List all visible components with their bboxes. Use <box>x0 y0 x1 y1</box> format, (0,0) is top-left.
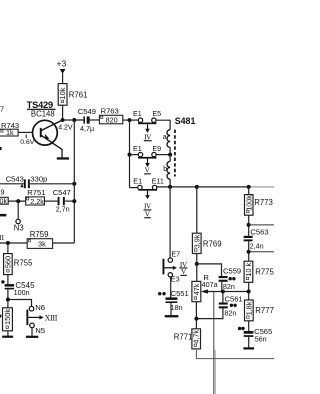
wire E5 to coil a <box>156 120 170 130</box>
svg-text:7: 7 <box>0 104 4 113</box>
wire R759 row <box>0 242 27 244</box>
capacitor C559 82n <box>219 267 242 291</box>
svg-text:3k: 3k <box>38 239 46 248</box>
svg-text:3,9k: 3,9k <box>192 234 201 248</box>
resistor R777 1,8k <box>244 300 274 321</box>
wire E3 to C551 <box>170 277 172 298</box>
resistor R773 100k <box>244 195 273 216</box>
junction N6 tap <box>6 298 10 302</box>
junction stub2 <box>247 250 251 254</box>
junction C559 tap <box>195 262 199 266</box>
svg-text:4.2V: 4.2V <box>58 124 73 131</box>
junction stub1 <box>247 223 251 227</box>
svg-text:E1: E1 <box>133 144 142 153</box>
svg-text:R773: R773 <box>254 198 273 207</box>
wire C545 down <box>7 289 9 307</box>
terminal N3 <box>14 219 24 232</box>
svg-text:82n: 82n <box>223 282 235 291</box>
wire continuation right (thin) <box>249 186 274 188</box>
svg-text:C563: C563 <box>250 228 268 237</box>
wire R773 lead <box>248 187 250 195</box>
ground C565 <box>243 347 254 349</box>
svg-text:150k: 150k <box>3 309 12 325</box>
junction row2 left <box>128 153 132 157</box>
svg-text:407a: 407a <box>202 280 218 289</box>
capacitor plate (cut) at left edge <box>0 214 6 217</box>
wire N3 drop <box>17 201 19 219</box>
edge tick left <box>0 315 1 318</box>
svg-text:TS429: TS429 <box>27 100 53 110</box>
wire R775 to R777 <box>248 282 250 300</box>
wire C563 to R775 <box>248 241 250 261</box>
svg-text:XII: XII <box>0 233 5 242</box>
junction coil tap <box>168 153 172 157</box>
svg-text:E9: E9 <box>152 144 161 153</box>
wire R755 to C545 <box>7 275 9 285</box>
coil a <box>163 130 170 148</box>
resistor R769 3,9k <box>192 233 221 253</box>
wire E7 column <box>169 187 171 258</box>
wire branch down to edge <box>213 292 215 394</box>
junction C543 row <box>72 182 76 186</box>
svg-text:2,2k: 2,2k <box>30 197 44 206</box>
wire C551 to ground <box>170 303 172 315</box>
label 0.6V with tick <box>20 134 34 146</box>
wire 150k to ground <box>7 331 9 336</box>
svg-text:E1: E1 <box>133 109 142 118</box>
junction coil b bottom <box>168 185 172 189</box>
svg-text:820: 820 <box>106 115 118 124</box>
wire R763 to E1 <box>123 119 139 121</box>
wire base <box>18 131 33 133</box>
svg-text:.9: .9 <box>0 187 5 196</box>
switch S481 section IV/V : terminals E1 E11 <box>133 176 164 218</box>
resistor R775 10k <box>244 261 275 282</box>
svg-text:1k: 1k <box>6 128 14 137</box>
capacitor C563 2,4n <box>244 228 269 251</box>
capacitor C543 330p <box>6 174 48 188</box>
wire row2 left <box>130 154 139 156</box>
svg-text:+3: +3 <box>57 59 67 69</box>
capacitor C549 4,7µ <box>78 107 96 133</box>
wire left switch rail <box>129 120 131 188</box>
svg-text:560: 560 <box>3 256 12 268</box>
resistor R759 3k <box>27 230 52 248</box>
svg-text:R775: R775 <box>255 267 274 276</box>
svg-text:BC148: BC148 <box>31 109 55 118</box>
wire C549 to R763 <box>90 119 100 121</box>
wire stub right 1 <box>249 224 274 226</box>
svg-text:18n: 18n <box>171 303 183 312</box>
ground 150k <box>2 336 13 338</box>
capacitor C561 82n <box>219 292 243 318</box>
junction left switch rail top <box>128 118 132 122</box>
capacitor C551 18n <box>158 289 189 312</box>
svg-text:S481: S481 <box>175 116 196 126</box>
junction R771 top <box>194 317 198 321</box>
svg-text:100n: 100n <box>14 288 30 297</box>
wire R751 to C547 <box>44 200 57 202</box>
svg-text:4,7µ: 4,7µ <box>80 124 94 133</box>
svg-text:R771: R771 <box>174 333 193 342</box>
coil b <box>163 161 170 179</box>
svg-text:56n: 56n <box>255 335 267 344</box>
wire R761 to collector node <box>62 105 64 120</box>
svg-text:E7: E7 <box>171 250 180 259</box>
switch contact E7/E3 with arrow IV V <box>163 250 188 284</box>
wire R771 bottom corner <box>196 349 274 359</box>
terminal N5 <box>30 323 45 335</box>
switch S481 section IV : terminals E1 E5 <box>133 109 161 141</box>
svg-text:V: V <box>145 210 151 219</box>
junction R755 top <box>6 241 10 245</box>
svg-text:R759: R759 <box>30 230 49 239</box>
resistor 150k <box>3 308 13 331</box>
wire R769 to pot <box>196 254 198 282</box>
svg-text:2,7n: 2,7n <box>56 205 70 214</box>
wire to N6 <box>8 300 32 307</box>
junction node x74 <box>72 118 76 122</box>
svg-text:10k: 10k <box>58 87 67 99</box>
resistor (cut) 10k at left edge <box>0 187 8 205</box>
wire pot bottom <box>195 302 197 329</box>
svg-text:E5: E5 <box>152 109 161 118</box>
svg-text:330p: 330p <box>30 174 47 183</box>
svg-text:C543: C543 <box>6 174 24 183</box>
transistor TS429 BC148 <box>27 100 63 158</box>
wire +3 to R761 <box>62 73 64 84</box>
svg-text:C547: C547 <box>53 188 71 197</box>
switch XIII contact <box>26 310 57 325</box>
svg-text:E11: E11 <box>152 176 164 185</box>
svg-text:XIII: XIII <box>45 314 58 323</box>
wire collector node to C549 <box>63 119 84 121</box>
node +3 supply <box>57 59 67 74</box>
svg-text:N3: N3 <box>14 223 24 232</box>
svg-text:1,8k: 1,8k <box>244 301 253 315</box>
svg-text:R755: R755 <box>14 259 33 268</box>
wire R759 to rail corner <box>53 242 75 244</box>
resistor R755 560 <box>3 243 33 275</box>
svg-text:a: a <box>163 134 167 141</box>
wire R773 to C563 <box>248 215 250 236</box>
wire to coil b <box>169 155 171 162</box>
wire E9 to coil junction <box>156 154 170 156</box>
svg-text:V: V <box>145 166 151 175</box>
resistor R763 820 <box>99 106 122 124</box>
svg-text:E3: E3 <box>171 275 180 284</box>
svg-text:C559: C559 <box>223 267 241 276</box>
wire stub right 2 <box>249 251 274 253</box>
svg-text:R777: R777 <box>255 306 274 315</box>
resistor R761 10k <box>58 84 87 106</box>
wire R769 lead top <box>196 187 198 233</box>
junction C547 rail <box>72 199 76 203</box>
svg-text:E1: E1 <box>133 176 142 185</box>
svg-text:100k: 100k <box>244 195 253 211</box>
svg-text:IV: IV <box>144 132 152 141</box>
dashed core line <box>174 130 176 177</box>
resistor R743 1k (cut at left edge) <box>0 104 19 137</box>
terminal N6 <box>29 303 45 312</box>
edge tick left upper <box>0 147 2 150</box>
svg-text:R769: R769 <box>203 239 222 248</box>
junction R769 top <box>195 185 199 189</box>
svg-text:C549: C549 <box>78 107 96 116</box>
feedback rail x74 <box>73 120 75 243</box>
svg-text:R751: R751 <box>27 188 45 197</box>
svg-text:82n: 82n <box>224 309 236 318</box>
wire row3 left corner <box>130 187 138 189</box>
wire C559 bottom <box>221 282 223 292</box>
svg-text:R763: R763 <box>101 106 119 115</box>
wire C561 bottom corner to R771 top <box>196 308 223 318</box>
junction collector node <box>61 118 65 122</box>
svg-text:4,7k: 4,7k <box>192 330 201 344</box>
capacitor C565 56n <box>238 327 272 344</box>
svg-text:2,4n: 2,4n <box>250 241 264 250</box>
wire coil a bottom <box>169 147 171 154</box>
switch S481 section V : terminals E1 E9 <box>133 144 161 175</box>
wire row3 output (main horizontal net) <box>157 186 249 188</box>
wire coil b bottom <box>169 179 171 187</box>
junction wiper/C561 <box>221 290 225 294</box>
wire C565 to ground <box>248 337 250 348</box>
svg-text:C551: C551 <box>171 289 189 298</box>
junction N3 tap <box>16 199 20 203</box>
capacitor C545 100n <box>1 280 35 297</box>
wire C543 row <box>0 183 24 185</box>
svg-text:C561: C561 <box>225 295 243 304</box>
wire R777 to C565 <box>248 321 250 331</box>
svg-text:N5: N5 <box>35 326 45 335</box>
svg-text:N6: N6 <box>35 303 45 312</box>
junction R773 top <box>247 185 251 189</box>
wire C547 to rail <box>65 200 75 202</box>
wire to C559 <box>197 264 222 276</box>
wiper arrow <box>201 289 249 293</box>
wire left box to R751 <box>8 200 26 202</box>
capacitor C547 2,7n <box>53 188 71 214</box>
svg-text:47k: 47k <box>192 283 201 295</box>
svg-text:R761: R761 <box>69 90 88 99</box>
potentiometer R407a 47k <box>192 273 218 301</box>
ground N5 <box>26 336 38 338</box>
wire N5 to ground <box>31 328 33 336</box>
junction wiper rail <box>247 290 251 294</box>
svg-text:0.6V: 0.6V <box>20 139 34 146</box>
svg-text:10k: 10k <box>0 196 7 205</box>
resistor R751 2,2k <box>26 188 46 206</box>
ground (emitter) <box>57 157 69 159</box>
resistor R771 4,7k <box>174 329 201 349</box>
svg-text:10 k: 10 k <box>244 263 253 277</box>
ground C551 <box>165 315 179 317</box>
